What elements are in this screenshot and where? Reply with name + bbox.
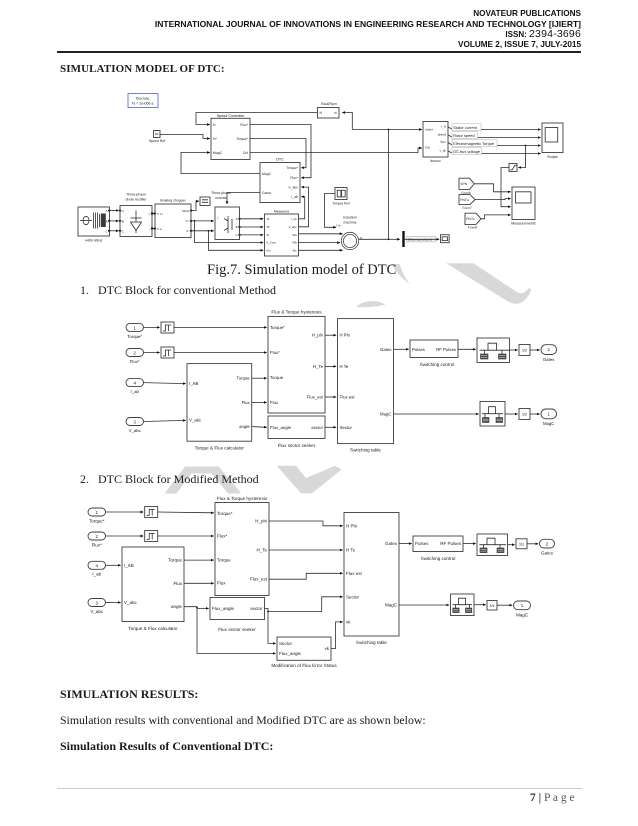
svg-text:angle: angle: [171, 604, 183, 609]
svg-text:I_ab: I_ab: [291, 217, 297, 221]
svg-text:V L-: V L-: [157, 227, 162, 231]
svg-text:sector: sector: [311, 425, 323, 430]
svg-text:MagC: MagC: [213, 151, 223, 155]
svg-text:demux: demux: [430, 159, 441, 163]
svg-text:RF Pulses: RF Pulses: [436, 347, 456, 352]
svg-text:Switching control: Switching control: [420, 362, 455, 367]
svg-text:Flux: Flux: [217, 581, 226, 586]
svg-text:Modification of Flux Error Sta: Modification of Flux Error Status: [271, 663, 337, 668]
svg-text:MagC: MagC: [543, 421, 554, 426]
svg-text:A: A: [106, 209, 108, 213]
svg-text:Sector: Sector: [279, 641, 293, 646]
svg-text:Flux_angle: Flux_angle: [279, 651, 302, 656]
svg-text:diode rectifier: diode rectifier: [125, 198, 147, 202]
svg-text:Flux_est: Flux_est: [250, 577, 268, 582]
svg-text:Flux: Flux: [270, 400, 279, 405]
svg-text:angle: angle: [239, 424, 250, 429]
svg-text:V_abc: V_abc: [129, 428, 142, 433]
svg-text:Torque*: Torque*: [286, 166, 298, 170]
svg-text:Braking chopper: Braking chopper: [160, 198, 186, 202]
svg-text:PhiTe: PhiTe: [466, 217, 474, 221]
svg-text:Tem: Tem: [440, 140, 446, 144]
svg-text:Torque: Torque: [217, 558, 231, 563]
svg-text:RF Pulses: RF Pulses: [440, 541, 462, 546]
svg-text:A: A: [122, 209, 124, 213]
svg-text:Electromagnetic Torque: Electromagnetic Torque: [453, 141, 494, 146]
svg-text:Scope: Scope: [547, 155, 557, 159]
svg-text:Wa: Wa: [292, 233, 297, 237]
svg-text:Gates: Gates: [262, 191, 271, 195]
svg-text:I_AB: I_AB: [189, 381, 198, 386]
svg-text:I_ab: I_ab: [291, 195, 298, 199]
svg-text:Flux*: Flux*: [240, 123, 248, 127]
svg-text:Torque*: Torque*: [89, 518, 105, 523]
svg-text:Measures: Measures: [274, 209, 290, 213]
svg-text:V_abc: V_abc: [189, 418, 202, 423]
svg-text:MagC: MagC: [262, 172, 272, 176]
svg-text:Gates: Gates: [380, 347, 391, 352]
svg-text:Torque*: Torque*: [236, 137, 248, 141]
svg-text:Vin: Vin: [266, 248, 271, 252]
svg-text:Speed Controller: Speed Controller: [217, 114, 245, 118]
svg-text:Flux: Flux: [173, 581, 182, 586]
svg-text:H Te: H Te: [346, 548, 356, 553]
svg-text:Sector: Sector: [340, 425, 353, 430]
svg-text:H_Te: H_Te: [256, 548, 267, 553]
svg-text:Flux est: Flux est: [340, 395, 356, 400]
svg-text:V_abc: V_abc: [90, 609, 104, 614]
svg-text:Gates: Gates: [541, 551, 554, 556]
svg-text:Gates: Gates: [385, 541, 398, 546]
svg-text:Sector: Sector: [346, 594, 360, 599]
svg-text:Flux sector seeker: Flux sector seeker: [278, 443, 316, 448]
svg-text:Torque*: Torque*: [217, 511, 233, 516]
svg-text:1/z: 1/z: [489, 603, 494, 608]
svg-text:V+: V+: [185, 219, 189, 223]
svg-text:V-: V-: [186, 229, 189, 233]
svg-text:Tb: Tb: [266, 225, 270, 229]
svg-text:speed: speed: [438, 132, 447, 136]
svg-text:V_abc: V_abc: [124, 600, 138, 605]
svg-text:Torque & Flux calculator: Torque & Flux calculator: [195, 445, 245, 450]
svg-text:C: C: [235, 233, 237, 237]
svg-text:Switching table: Switching table: [350, 447, 381, 452]
svg-text:I_ab: I_ab: [131, 389, 140, 394]
svg-text:+: +: [148, 212, 150, 216]
svg-text:B: B: [122, 219, 124, 223]
svg-text:Flux_angle: Flux_angle: [212, 606, 235, 611]
svg-text:Flux*: Flux*: [130, 359, 140, 364]
svg-text:Wc: Wc: [293, 248, 298, 252]
svg-text:Switching table: Switching table: [356, 640, 387, 645]
svg-text:Flux & Torque hysteresis: Flux & Torque hysteresis: [271, 310, 322, 315]
svg-text:H_phi: H_phi: [312, 333, 323, 338]
svg-text:Induction: Induction: [343, 216, 357, 220]
svg-text:Switching control: Switching control: [421, 556, 456, 561]
svg-text:sector: sector: [250, 606, 263, 611]
svg-text:Torque Ref: Torque Ref: [332, 202, 349, 206]
svg-text:Rad2Rpm: Rad2Rpm: [321, 102, 337, 106]
svg-text:440V 60Hz: 440V 60Hz: [85, 239, 103, 243]
svg-text:Ctrl: Ctrl: [425, 145, 430, 149]
svg-text:I_AB: I_AB: [124, 563, 134, 568]
svg-text:vk: vk: [325, 646, 330, 651]
svg-text:Torque: Torque: [237, 376, 251, 381]
svg-text:Torque & Flux calculator: Torque & Flux calculator: [128, 626, 178, 631]
svg-text:MagC: MagC: [385, 603, 398, 608]
svg-text:Flux & Torque hysteresis: Flux & Torque hysteresis: [217, 496, 268, 501]
svg-text:v_dc: v_dc: [439, 148, 446, 152]
svg-text:PhiFa: PhiFa: [460, 198, 469, 202]
svg-text:Ts = 2e-006 s.: Ts = 2e-006 s.: [132, 102, 155, 106]
svg-text:Flux: Flux: [242, 400, 251, 405]
svg-text:MagC: MagC: [516, 612, 529, 617]
svg-text:1/z: 1/z: [522, 348, 527, 353]
svg-text:motor: motor: [425, 127, 433, 131]
svg-text:H Te: H Te: [340, 364, 349, 369]
svg-text:V_Com: V_Com: [266, 241, 276, 245]
svg-text:B: B: [236, 225, 238, 229]
svg-text:m: m: [334, 111, 337, 115]
svg-text:Torque*: Torque*: [270, 325, 285, 330]
svg-text:From7: From7: [462, 206, 471, 210]
svg-text:V_abc: V_abc: [288, 185, 298, 189]
svg-text:Wb: Wb: [292, 241, 297, 245]
svg-text:Pulses: Pulses: [415, 541, 429, 546]
svg-text:Flux sector seeker: Flux sector seeker: [218, 627, 256, 632]
svg-text:V L+: V L+: [157, 212, 163, 216]
svg-text:Flux*: Flux*: [217, 534, 228, 539]
svg-text:Pulses: Pulses: [412, 347, 425, 352]
svg-text:Mess: Mess: [182, 209, 189, 213]
svg-text:Flux*: Flux*: [92, 542, 103, 547]
svg-text:-: -: [149, 227, 150, 231]
svg-text:inverter: inverter: [215, 196, 228, 200]
svg-text:1/z: 1/z: [519, 542, 524, 547]
svg-text:Flux_angle: Flux_angle: [270, 425, 292, 430]
svg-text:Flux*: Flux*: [290, 176, 298, 180]
svg-text:H Phi: H Phi: [340, 333, 351, 338]
svg-text:DC bus voltage: DC bus voltage: [453, 149, 480, 154]
svg-text:B: B: [106, 219, 108, 223]
svg-text:Gates: Gates: [543, 357, 554, 362]
svg-text:Flux_est: Flux_est: [307, 395, 324, 400]
svg-text:C: C: [122, 229, 124, 233]
svg-text:Flux est: Flux est: [346, 571, 363, 576]
svg-text:Speed Ref: Speed Ref: [149, 139, 166, 143]
svg-text:I_ab: I_ab: [92, 572, 101, 577]
svg-text:DTC: DTC: [276, 158, 284, 162]
svg-text:Torque*: Torque*: [127, 334, 142, 339]
svg-text:From8: From8: [468, 226, 477, 230]
svg-text:Flux*: Flux*: [270, 350, 280, 355]
svg-text:SPhi: SPhi: [460, 182, 467, 186]
svg-text:vk: vk: [346, 619, 351, 624]
svg-text:H Phi: H Phi: [346, 524, 357, 529]
svg-text:Measurements: Measurements: [511, 222, 536, 226]
svg-text:Torque: Torque: [168, 558, 182, 563]
svg-text:A: A: [236, 217, 238, 221]
svg-text:+: +: [217, 216, 219, 220]
svg-text:machine: machine: [343, 220, 356, 224]
svg-text:Stator current: Stator current: [453, 125, 477, 130]
svg-text:Ta: Ta: [266, 217, 269, 221]
svg-text:V_abc: V_abc: [288, 225, 297, 229]
svg-text:H_phi: H_phi: [255, 519, 267, 524]
svg-text:Discrete,: Discrete,: [136, 96, 150, 100]
svg-text:Torque: Torque: [270, 375, 284, 380]
svg-text:Ctrl: Ctrl: [243, 151, 249, 155]
svg-text:1/z: 1/z: [522, 412, 527, 417]
svg-text:MagC: MagC: [380, 412, 391, 417]
svg-text:C: C: [105, 229, 107, 233]
svg-text:H_Te: H_Te: [313, 364, 324, 369]
svg-text:Three-phase: Three-phase: [126, 193, 146, 197]
svg-text:Tm: Tm: [336, 223, 341, 227]
svg-text:Rotor speed: Rotor speed: [453, 133, 474, 138]
